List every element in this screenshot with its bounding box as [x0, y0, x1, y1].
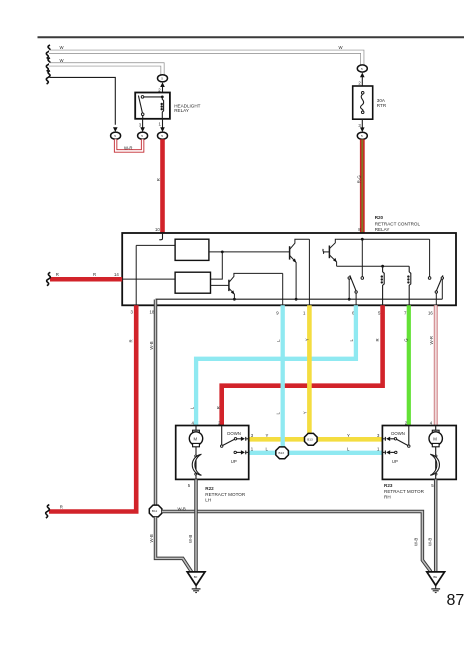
svg-text:R: R	[93, 272, 96, 277]
ground BF (left)	[187, 572, 205, 593]
RH motor switch DOWN/UP	[382, 426, 410, 464]
svg-text:10: 10	[155, 227, 160, 232]
wire (black, to headlight relay sw feed connector)	[50, 77, 116, 124]
R20 coil feed rail from Q3 emitter	[337, 265, 410, 268]
R20 pin 1 riser	[308, 239, 310, 305]
svg-text:DOWN: DOWN	[391, 431, 405, 436]
R20 internal wiring left	[122, 245, 175, 305]
svg-text:R: R	[60, 505, 63, 510]
wire break squiggle (pin 14 wire)	[47, 272, 51, 285]
svg-text:UP: UP	[231, 459, 237, 464]
R20 net IC2-Q1 base	[211, 284, 229, 286]
svg-text:DOWN: DOWN	[227, 431, 241, 436]
R20 +B drop to switch 2 contact	[428, 239, 431, 279]
svg-text:87: 87	[447, 592, 465, 609]
svg-text:BE: BE	[433, 575, 437, 579]
svg-text:RETRACT MOTOR: RETRACT MOTOR	[205, 492, 246, 497]
RH motor external pin labels	[347, 433, 380, 452]
svg-text:RH: RH	[384, 495, 391, 500]
svg-text:R23: R23	[384, 483, 393, 488]
svg-text:5: 5	[161, 134, 163, 138]
svg-text:R: R	[375, 338, 380, 341]
position cam (RH)	[430, 453, 439, 479]
svg-text:R-G: R-G	[356, 175, 361, 184]
svg-text:5: 5	[141, 134, 143, 138]
wire W-B (B11 to right ground, horizontal)	[162, 507, 431, 572]
transistor Q3	[323, 239, 337, 266]
svg-text:M: M	[194, 436, 198, 441]
wire break squiggle S3	[46, 71, 50, 84]
wire R (headlight relay to R20 pin 10)	[156, 139, 162, 233]
headlight relay coil	[161, 97, 164, 119]
wire L (R20 pin 6 to LH motor pin 4)	[189, 305, 356, 425]
svg-text:W-R: W-R	[124, 145, 133, 150]
svg-text:W-B: W-B	[428, 538, 433, 546]
down arrow pin 3 headlight relay	[139, 119, 145, 132]
svg-text:W-B: W-B	[414, 538, 419, 546]
svg-text:RTR: RTR	[377, 103, 387, 108]
motor M (LH)	[189, 426, 202, 454]
LH motor external pin labels	[251, 433, 269, 452]
wire break squiggle (bottom red wire)	[46, 505, 50, 518]
R20 pin 10	[155, 227, 163, 240]
wire L (R20 pin 9 to B13)	[276, 305, 283, 453]
connector 5 (left of W-R loop)	[111, 132, 121, 139]
svg-text:UP: UP	[392, 459, 398, 464]
R20 +B drop to switch 1 contact	[361, 239, 364, 279]
wire G (R20 pin 7 to RH motor pin 2)	[404, 305, 409, 425]
connector 5 (below fuse)	[357, 132, 367, 139]
svg-text:R: R	[129, 339, 134, 342]
svg-text:RELAY: RELAY	[174, 108, 189, 113]
wire R (R20 pin 5 to LH motor pin 2)	[216, 305, 383, 425]
svg-text:W-R: W-R	[429, 336, 434, 345]
svg-text:Y: Y	[305, 338, 310, 341]
up arrow into connector 5	[158, 82, 165, 92]
motor M (RH)	[429, 426, 442, 454]
connector 5 (above fuse)	[357, 65, 367, 72]
svg-text:R22: R22	[205, 486, 214, 491]
connector 5 (above headlight relay)	[158, 75, 168, 82]
svg-text:W-B: W-B	[149, 534, 154, 542]
wire L (B13 junction between motors)	[249, 451, 383, 455]
R20 IC block 2	[175, 272, 210, 293]
svg-text:Y: Y	[266, 433, 269, 438]
R20 +B top rail	[337, 238, 430, 241]
connector 5 (under relay pin 1)	[158, 132, 168, 139]
svg-text:M: M	[433, 436, 437, 441]
svg-text:W-B: W-B	[149, 341, 154, 349]
R20 switch 1	[348, 275, 357, 305]
svg-text:RELAY: RELAY	[375, 227, 390, 232]
R20 net IC1-Q2 base	[209, 251, 290, 280]
svg-text:RETRACT CONTROL: RETRACT CONTROL	[375, 221, 421, 226]
R20 ground rail	[156, 298, 443, 300]
wire break squiggle S2	[46, 58, 50, 71]
wire W-R (R20 pin 16 to RH motor pin 4)	[429, 305, 436, 425]
motor R23 RETRACT MOTOR RH box	[382, 420, 456, 499]
svg-text:R20: R20	[375, 215, 384, 220]
down arrow pin 3 fuse	[358, 119, 364, 132]
down arrow pin 1 headlight relay	[159, 119, 165, 132]
svg-text:B13: B13	[279, 451, 285, 455]
R20 pin 9 riser	[282, 273, 284, 305]
wire W (top feed to 30A RTR fuse)	[49, 45, 362, 65]
svg-text:5: 5	[361, 67, 363, 71]
svg-text:W-B: W-B	[178, 507, 186, 512]
wire break squiggle S1	[46, 45, 50, 58]
connector B13 (yellow)	[305, 433, 318, 445]
wire W-R loop	[116, 139, 143, 151]
wire Y (R20 pin 1 to B13)	[303, 305, 310, 439]
svg-text:R: R	[156, 178, 161, 181]
wire R (R20 pin 3 to break)	[49, 305, 136, 511]
svg-text:5: 5	[114, 134, 116, 138]
svg-text:16: 16	[428, 311, 433, 316]
connector B13 (cyan)	[276, 447, 289, 459]
down arrow into connector (left, black wire)	[113, 127, 118, 132]
svg-text:14: 14	[114, 272, 119, 277]
svg-text:R: R	[216, 406, 221, 409]
page top border	[38, 36, 465, 38]
relay coil 2 (R20)	[407, 266, 411, 305]
wire W-B (B11 down to left ground)	[149, 517, 191, 572]
LH motor switch DOWN/UP	[221, 426, 249, 464]
svg-text:B13: B13	[307, 438, 313, 442]
wire Y (B13 junction between motors)	[249, 437, 383, 442]
svg-text:LH: LH	[205, 498, 211, 503]
R20 bottom pin labels	[131, 310, 434, 316]
svg-text:R: R	[56, 272, 59, 277]
wire W-B (RH motor pin 5 to right ground)	[428, 479, 436, 571]
wire W-B (LH motor pin 5 to left ground)	[188, 479, 196, 571]
connector 5 (under relay pin 3)	[138, 132, 148, 139]
svg-text:B11: B11	[152, 509, 158, 513]
svg-text:Y: Y	[347, 433, 350, 438]
motor R22 RETRACT MOTOR LH box	[176, 420, 249, 502]
R20 IC block 1	[175, 239, 209, 260]
position cam (LH)	[192, 453, 201, 479]
headlight relay HEADLIGHT RELAY	[135, 93, 200, 119]
svg-text:Y: Y	[303, 411, 308, 414]
svg-text:BF: BF	[194, 575, 198, 579]
wire W (feed to headlight relay)	[49, 58, 163, 75]
transistor Q2	[290, 239, 310, 300]
headlight relay contact (switch)	[138, 96, 163, 119]
wire W-B (R20 pin 18 to B11)	[149, 300, 156, 506]
svg-text:W-B: W-B	[188, 535, 193, 543]
connector B11	[149, 505, 162, 517]
up arrow into connector 5 (fuse)	[358, 73, 364, 87]
transistor Q1	[229, 273, 283, 300]
relay coil 1 (R20)	[381, 266, 385, 305]
fuse 30A RTR	[353, 86, 387, 119]
svg-text:5: 5	[161, 77, 163, 81]
R20 switch 2	[435, 275, 443, 305]
ground BE (right)	[427, 572, 445, 593]
svg-text:5: 5	[361, 134, 363, 138]
svg-text:RETRACT MOTOR: RETRACT MOTOR	[384, 489, 425, 494]
relay R20 RETRACT CONTROL RELAY box	[122, 215, 456, 305]
wire R (feed to R20 pin 14)	[50, 272, 122, 279]
wire R-G (fuse to R20 pin 8)	[356, 139, 362, 233]
